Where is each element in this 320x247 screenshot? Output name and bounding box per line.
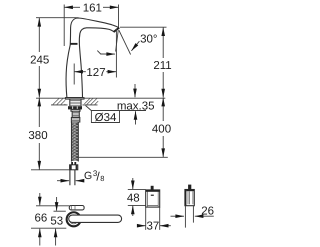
- svg-text:30°: 30°: [140, 34, 157, 46]
- svg-text:53: 53: [50, 216, 63, 228]
- svg-text:245: 245: [30, 54, 49, 66]
- countertop deck top line: [36, 97, 165, 99]
- faucet body and spout outline: [66, 18, 119, 98]
- spout outlet face: [114, 28, 120, 32]
- dimension 211 line: [162, 27, 164, 58]
- dimension 26 extension lines: [185, 206, 193, 228]
- 30 degree leader arrow: [131, 41, 139, 51]
- escutcheon inner circle: [69, 215, 78, 224]
- base plate: [65, 98, 84, 100]
- dimension 127 extension lines: [74, 29, 116, 85]
- dimension 161 line: [64, 6, 80, 8]
- dimension 53 top extension: [54, 210, 66, 212]
- dimension 127 line: [74, 71, 86, 73]
- lever handle: [69, 215, 122, 222]
- control box led dash: [151, 195, 154, 196]
- dimension 380 line: [38, 98, 40, 127]
- svg-text:66: 66: [35, 213, 48, 225]
- max.35 lower line with O34 box top: [91, 110, 146, 112]
- svg-text:161: 161: [83, 3, 102, 15]
- lever top tab: [69, 206, 84, 210]
- svg-text:26: 26: [201, 205, 214, 217]
- side view shading lines: [188, 191, 193, 204]
- side view top cap: [186, 190, 194, 192]
- dimension 211 top extension line: [120, 26, 167, 28]
- svg-text:max.35: max.35: [117, 100, 155, 112]
- dimension 245 top extension line: [36, 17, 79, 19]
- dimension max.35 arrows: [134, 84, 136, 97]
- shank pipe below nut: [71, 109, 80, 111]
- threaded shank below base: [70, 99, 81, 106]
- control box hook tab: [151, 186, 154, 190]
- svg-text:G: G: [84, 170, 92, 182]
- svg-text:211: 211: [153, 60, 171, 72]
- hose end fitting block: [70, 165, 78, 170]
- dimension 26 arrows: [171, 215, 185, 217]
- 30 degree angle lines: [116, 30, 131, 55]
- deck hatching right: [84, 98, 98, 105]
- sensor window on neck: [70, 43, 77, 45]
- O34 leader: [86, 106, 92, 111]
- svg-text:127: 127: [86, 67, 105, 79]
- connection tail pipe G3/8: [70, 170, 75, 186]
- dimension 53 arrows: [56, 197, 58, 211]
- dimension 48 arrows: [132, 178, 134, 189]
- svg-text:37: 37: [147, 221, 160, 233]
- O34 label box: [91, 111, 119, 123]
- hose end fitting tabs: [71, 162, 73, 165]
- braided hose: [72, 122, 79, 162]
- dimension 66 arrows: [39, 193, 41, 205]
- svg-text:400: 400: [152, 124, 171, 136]
- side view left wall: [185, 190, 187, 206]
- escutcheon ring: [67, 212, 81, 226]
- control box front view: [146, 190, 160, 207]
- G3/8 arrows: [57, 180, 69, 182]
- svg-text:48: 48: [127, 193, 140, 205]
- deck hatching left: [53, 98, 66, 105]
- svg-text:8: 8: [100, 174, 104, 183]
- 30 degree horizontal pointer: [97, 51, 100, 54]
- lever bottom extension line: [31, 227, 66, 229]
- control box side view: [185, 190, 194, 206]
- dimension 48 extension lines: [128, 189, 146, 205]
- svg-text:Ø34: Ø34: [95, 112, 117, 124]
- hose crimp ferrule: [71, 118, 79, 123]
- dimension 37 arrows: [139, 225, 146, 227]
- dimension 400 line: [162, 98, 164, 121]
- dimension 400 bottom extension line: [77, 156, 168, 158]
- side view hook tab: [188, 185, 191, 190]
- svg-text:380: 380: [28, 130, 47, 142]
- dimension 380 bottom extension line: [31, 169, 69, 171]
- dimension 37 extension lines: [146, 207, 160, 230]
- control box top cap: [146, 190, 160, 192]
- dimension 66 top extension: [36, 205, 70, 207]
- countertop deck bottom line: [51, 104, 98, 106]
- mounting nut: [68, 106, 82, 109]
- dimension 245 line: [38, 18, 40, 52]
- dimension 161 extension lines: [64, 5, 118, 47]
